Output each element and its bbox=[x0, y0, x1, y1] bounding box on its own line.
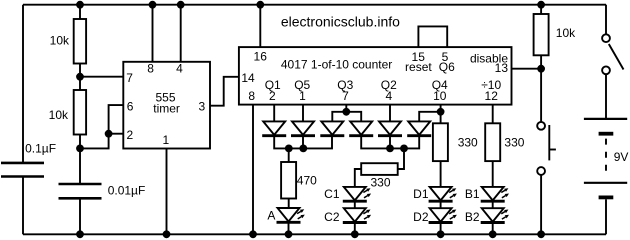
label A bbox=[267, 209, 275, 223]
wire Q5 to diode D2 bbox=[302, 105, 304, 122]
label 555 pin 1 bbox=[163, 133, 170, 147]
resistor R5 330 bbox=[433, 123, 448, 187]
node R7 supply bbox=[537, 1, 545, 9]
label 4017 pin 2 bbox=[269, 89, 276, 103]
svg-text:330: 330 bbox=[458, 135, 478, 149]
node R2-C junction bbox=[76, 145, 84, 153]
wire LED A to 0V bbox=[288, 224, 290, 235]
resistor R3 470 bbox=[281, 148, 296, 208]
svg-text:reset: reset bbox=[405, 60, 432, 74]
label 4017 pin 12 bbox=[485, 89, 499, 103]
svg-text:16: 16 bbox=[254, 50, 268, 64]
svg-text:470: 470 bbox=[297, 173, 317, 187]
wire left rail lower bbox=[22, 177, 24, 235]
svg-text:2: 2 bbox=[126, 128, 133, 142]
wire D4-D5-D6 cathode net bbox=[361, 136, 419, 149]
resistor R7 10k bbox=[534, 5, 549, 122]
node pin2 junction bbox=[105, 130, 113, 138]
label R3 470 bbox=[297, 173, 317, 187]
label Q5 bbox=[294, 78, 310, 92]
wire top rail to SW1 bbox=[605, 5, 607, 35]
node LED A ground bbox=[285, 230, 293, 238]
diode D1 bbox=[262, 121, 286, 135]
wire D1-D2-D3 cathode net bbox=[274, 136, 332, 149]
node R1-R2 junction bbox=[76, 73, 84, 81]
svg-text:330: 330 bbox=[504, 135, 524, 149]
push switch SW2 bbox=[537, 122, 556, 175]
wire 555 pin 8 bbox=[152, 5, 154, 62]
label 555 pin 4 bbox=[176, 62, 183, 76]
wire SW2 to 0V bbox=[540, 175, 542, 234]
node R4 feed bbox=[400, 145, 408, 153]
svg-text:14: 14 bbox=[241, 71, 255, 85]
wire junction to 555 pin 6 bbox=[80, 105, 123, 148]
svg-text:6: 6 bbox=[127, 100, 134, 114]
svg-text:9V: 9V bbox=[614, 150, 629, 164]
label 4017 pin 16 bbox=[254, 50, 268, 64]
svg-text:4017 1-of-10 counter: 4017 1-of-10 counter bbox=[281, 58, 392, 72]
toggle switch SW1 bbox=[602, 34, 623, 74]
wire junction to 555 pin 7 bbox=[80, 76, 123, 78]
label 4017 pin 4 bbox=[385, 89, 392, 103]
label R5 330 bbox=[458, 135, 478, 149]
resistor R2 10k bbox=[74, 77, 86, 149]
label 4017 pin 5 bbox=[442, 50, 449, 64]
wire 555 pin 4 bbox=[180, 5, 182, 62]
wire 555 pin 1 to 0V bbox=[166, 149, 168, 235]
diode D5 bbox=[378, 121, 402, 135]
label B1 bbox=[465, 187, 480, 201]
svg-text:A: A bbox=[267, 209, 275, 223]
node pin 1 ground bbox=[163, 230, 171, 238]
LED C2 bbox=[343, 208, 371, 222]
diode D3 bbox=[320, 121, 344, 135]
node Q4 branch bbox=[437, 108, 445, 116]
label 4017 pin 15 bbox=[412, 50, 426, 64]
svg-text:10k: 10k bbox=[50, 34, 70, 48]
label 555 pin 3 bbox=[199, 99, 206, 113]
IC U1 555 box bbox=[123, 62, 210, 149]
label electronicsclub.info bbox=[281, 14, 400, 30]
wire 4017 pin 12 to R6 bbox=[492, 105, 494, 124]
wire bottom 0V rail bbox=[23, 233, 606, 235]
wire reset to Q6 loop bbox=[418, 26, 447, 47]
wire Q2 to diode D5 bbox=[389, 105, 391, 122]
wire D1 to D2 bbox=[440, 203, 442, 209]
label 4017 pin 7 bbox=[342, 89, 349, 103]
svg-text:2: 2 bbox=[269, 89, 276, 103]
label 555 bbox=[153, 91, 180, 116]
label 4017 pin 8 bbox=[248, 89, 255, 103]
label D1 bbox=[413, 187, 429, 201]
LED A bbox=[277, 208, 305, 222]
label Q6 bbox=[439, 60, 455, 74]
label disable bbox=[470, 51, 508, 65]
label Q3 bbox=[337, 78, 353, 92]
svg-text:8: 8 bbox=[248, 89, 255, 103]
label 555 pin 8 bbox=[147, 62, 154, 76]
svg-text:electronicsclub.info: electronicsclub.info bbox=[281, 14, 400, 30]
svg-text:1: 1 bbox=[163, 133, 170, 147]
diode D2 bbox=[291, 121, 315, 135]
wire top supply rail bbox=[23, 4, 606, 6]
diode D6 bbox=[407, 121, 431, 135]
wire to 555 pin 2 bbox=[109, 133, 124, 135]
svg-text:C1: C1 bbox=[324, 187, 340, 201]
wire D2 to 0V bbox=[440, 224, 442, 235]
svg-text:D2: D2 bbox=[413, 210, 429, 224]
LED D1 bbox=[429, 187, 457, 201]
node D5 junction bbox=[386, 145, 394, 153]
IC U2 4017 box bbox=[239, 47, 512, 105]
node pin 4 supply bbox=[177, 1, 185, 9]
node pin 8 supply bbox=[149, 1, 157, 9]
wire left rail upper bbox=[22, 5, 24, 163]
wire 4017 pin 8 to 0V bbox=[252, 105, 254, 235]
label 0.1uF bbox=[25, 142, 56, 156]
svg-text:timer: timer bbox=[153, 101, 180, 115]
label R4 330 bbox=[370, 175, 390, 189]
label 4017 pin 1 bbox=[299, 89, 306, 103]
node pin 13 junction bbox=[537, 65, 545, 73]
LED D2 bbox=[429, 208, 457, 222]
svg-text:4: 4 bbox=[385, 89, 392, 103]
resistor R6 330 bbox=[485, 123, 500, 187]
label 555 pin 2 bbox=[126, 128, 133, 142]
svg-text:0.01µF: 0.01µF bbox=[108, 183, 146, 197]
svg-text:330: 330 bbox=[370, 175, 390, 189]
label R6 330 bbox=[504, 135, 524, 149]
wire Q1 to diode D1 bbox=[273, 105, 275, 122]
wire C1 to C2 bbox=[354, 203, 356, 209]
wire C2 to 0V bbox=[354, 224, 356, 235]
label R1 10k bbox=[50, 34, 70, 48]
svg-text:10k: 10k bbox=[556, 26, 576, 40]
svg-text:3: 3 bbox=[199, 99, 206, 113]
wire D2 cathode lead bbox=[302, 136, 304, 149]
node LED C ground bbox=[351, 230, 359, 238]
label R2 10k bbox=[49, 108, 69, 122]
wire Q4 to diode D6 bbox=[419, 112, 440, 122]
node top of R1 bbox=[76, 1, 84, 9]
svg-text:C2: C2 bbox=[324, 210, 340, 224]
wire Q3 to diode D3 bbox=[332, 112, 346, 122]
svg-text:7: 7 bbox=[342, 89, 349, 103]
capacitor C1 0.1uF bbox=[1, 163, 44, 177]
label 555 pin 6 bbox=[127, 100, 134, 114]
label Q4 bbox=[432, 78, 448, 92]
node Q3 branch bbox=[342, 108, 350, 116]
LED B2 bbox=[481, 208, 509, 222]
battery B1 9V bbox=[584, 119, 627, 234]
label 4017 pin 14 bbox=[241, 71, 255, 85]
wire D5 cathode lead bbox=[389, 136, 391, 149]
label reset bbox=[405, 60, 432, 74]
svg-text:B1: B1 bbox=[465, 187, 480, 201]
label 4017 pin 10 bbox=[433, 89, 447, 103]
node LED B ground bbox=[489, 230, 497, 238]
label Q1 bbox=[265, 78, 281, 92]
resistor R1 10k bbox=[74, 5, 86, 77]
label 0.01uF bbox=[108, 183, 146, 197]
svg-text:Q6: Q6 bbox=[439, 60, 455, 74]
svg-text:B2: B2 bbox=[465, 210, 480, 224]
svg-text:1: 1 bbox=[299, 89, 306, 103]
wire 555 pin 3 to 4017 pin 14 bbox=[210, 77, 239, 106]
wire B1 to B2 bbox=[492, 203, 494, 209]
diode D4 bbox=[349, 121, 373, 135]
node R3 feed bbox=[285, 145, 293, 153]
label B2 bbox=[465, 210, 480, 224]
label 9V bbox=[614, 150, 629, 164]
svg-text:13: 13 bbox=[495, 61, 509, 75]
node LED D ground bbox=[437, 230, 445, 238]
wire Q4 lead bbox=[440, 105, 442, 124]
label 4017 title bbox=[281, 58, 392, 72]
svg-text:12: 12 bbox=[485, 89, 499, 103]
label div10 bbox=[481, 78, 501, 92]
wire 4017 pin 16 bbox=[259, 5, 261, 47]
svg-text:0.1µF: 0.1µF bbox=[25, 142, 56, 156]
wire Q3 to diode D4 bbox=[346, 112, 361, 122]
label R7 10k bbox=[556, 26, 576, 40]
node pin 16 supply bbox=[256, 1, 264, 9]
capacitor C2 0.01uF bbox=[59, 148, 102, 234]
wire 4017 pin 13 to R7 bbox=[512, 68, 542, 70]
label Q2 bbox=[381, 78, 397, 92]
wire SW1 to battery bbox=[605, 74, 607, 118]
node D2 junction bbox=[299, 145, 307, 153]
LED B1 bbox=[481, 187, 509, 201]
wire B2 to 0V bbox=[492, 224, 494, 235]
LED C1 bbox=[343, 187, 371, 201]
svg-text:10: 10 bbox=[433, 89, 447, 103]
node SW2 ground bbox=[537, 230, 545, 238]
svg-text:7: 7 bbox=[126, 71, 133, 85]
label D2 bbox=[413, 210, 429, 224]
wire Q3 lead bbox=[345, 105, 347, 112]
svg-text:10k: 10k bbox=[49, 108, 69, 122]
label C1 bbox=[324, 187, 340, 201]
resistor R4 330 bbox=[355, 148, 404, 187]
label 555 pin 7 bbox=[126, 71, 133, 85]
node pin 8 ground bbox=[249, 230, 257, 238]
label 4017 pin 13 bbox=[495, 61, 509, 75]
svg-text:8: 8 bbox=[147, 62, 154, 76]
svg-text:4: 4 bbox=[176, 62, 183, 76]
node 0.01uF ground bbox=[76, 230, 84, 238]
label C2 bbox=[324, 210, 340, 224]
svg-text:D1: D1 bbox=[413, 187, 429, 201]
